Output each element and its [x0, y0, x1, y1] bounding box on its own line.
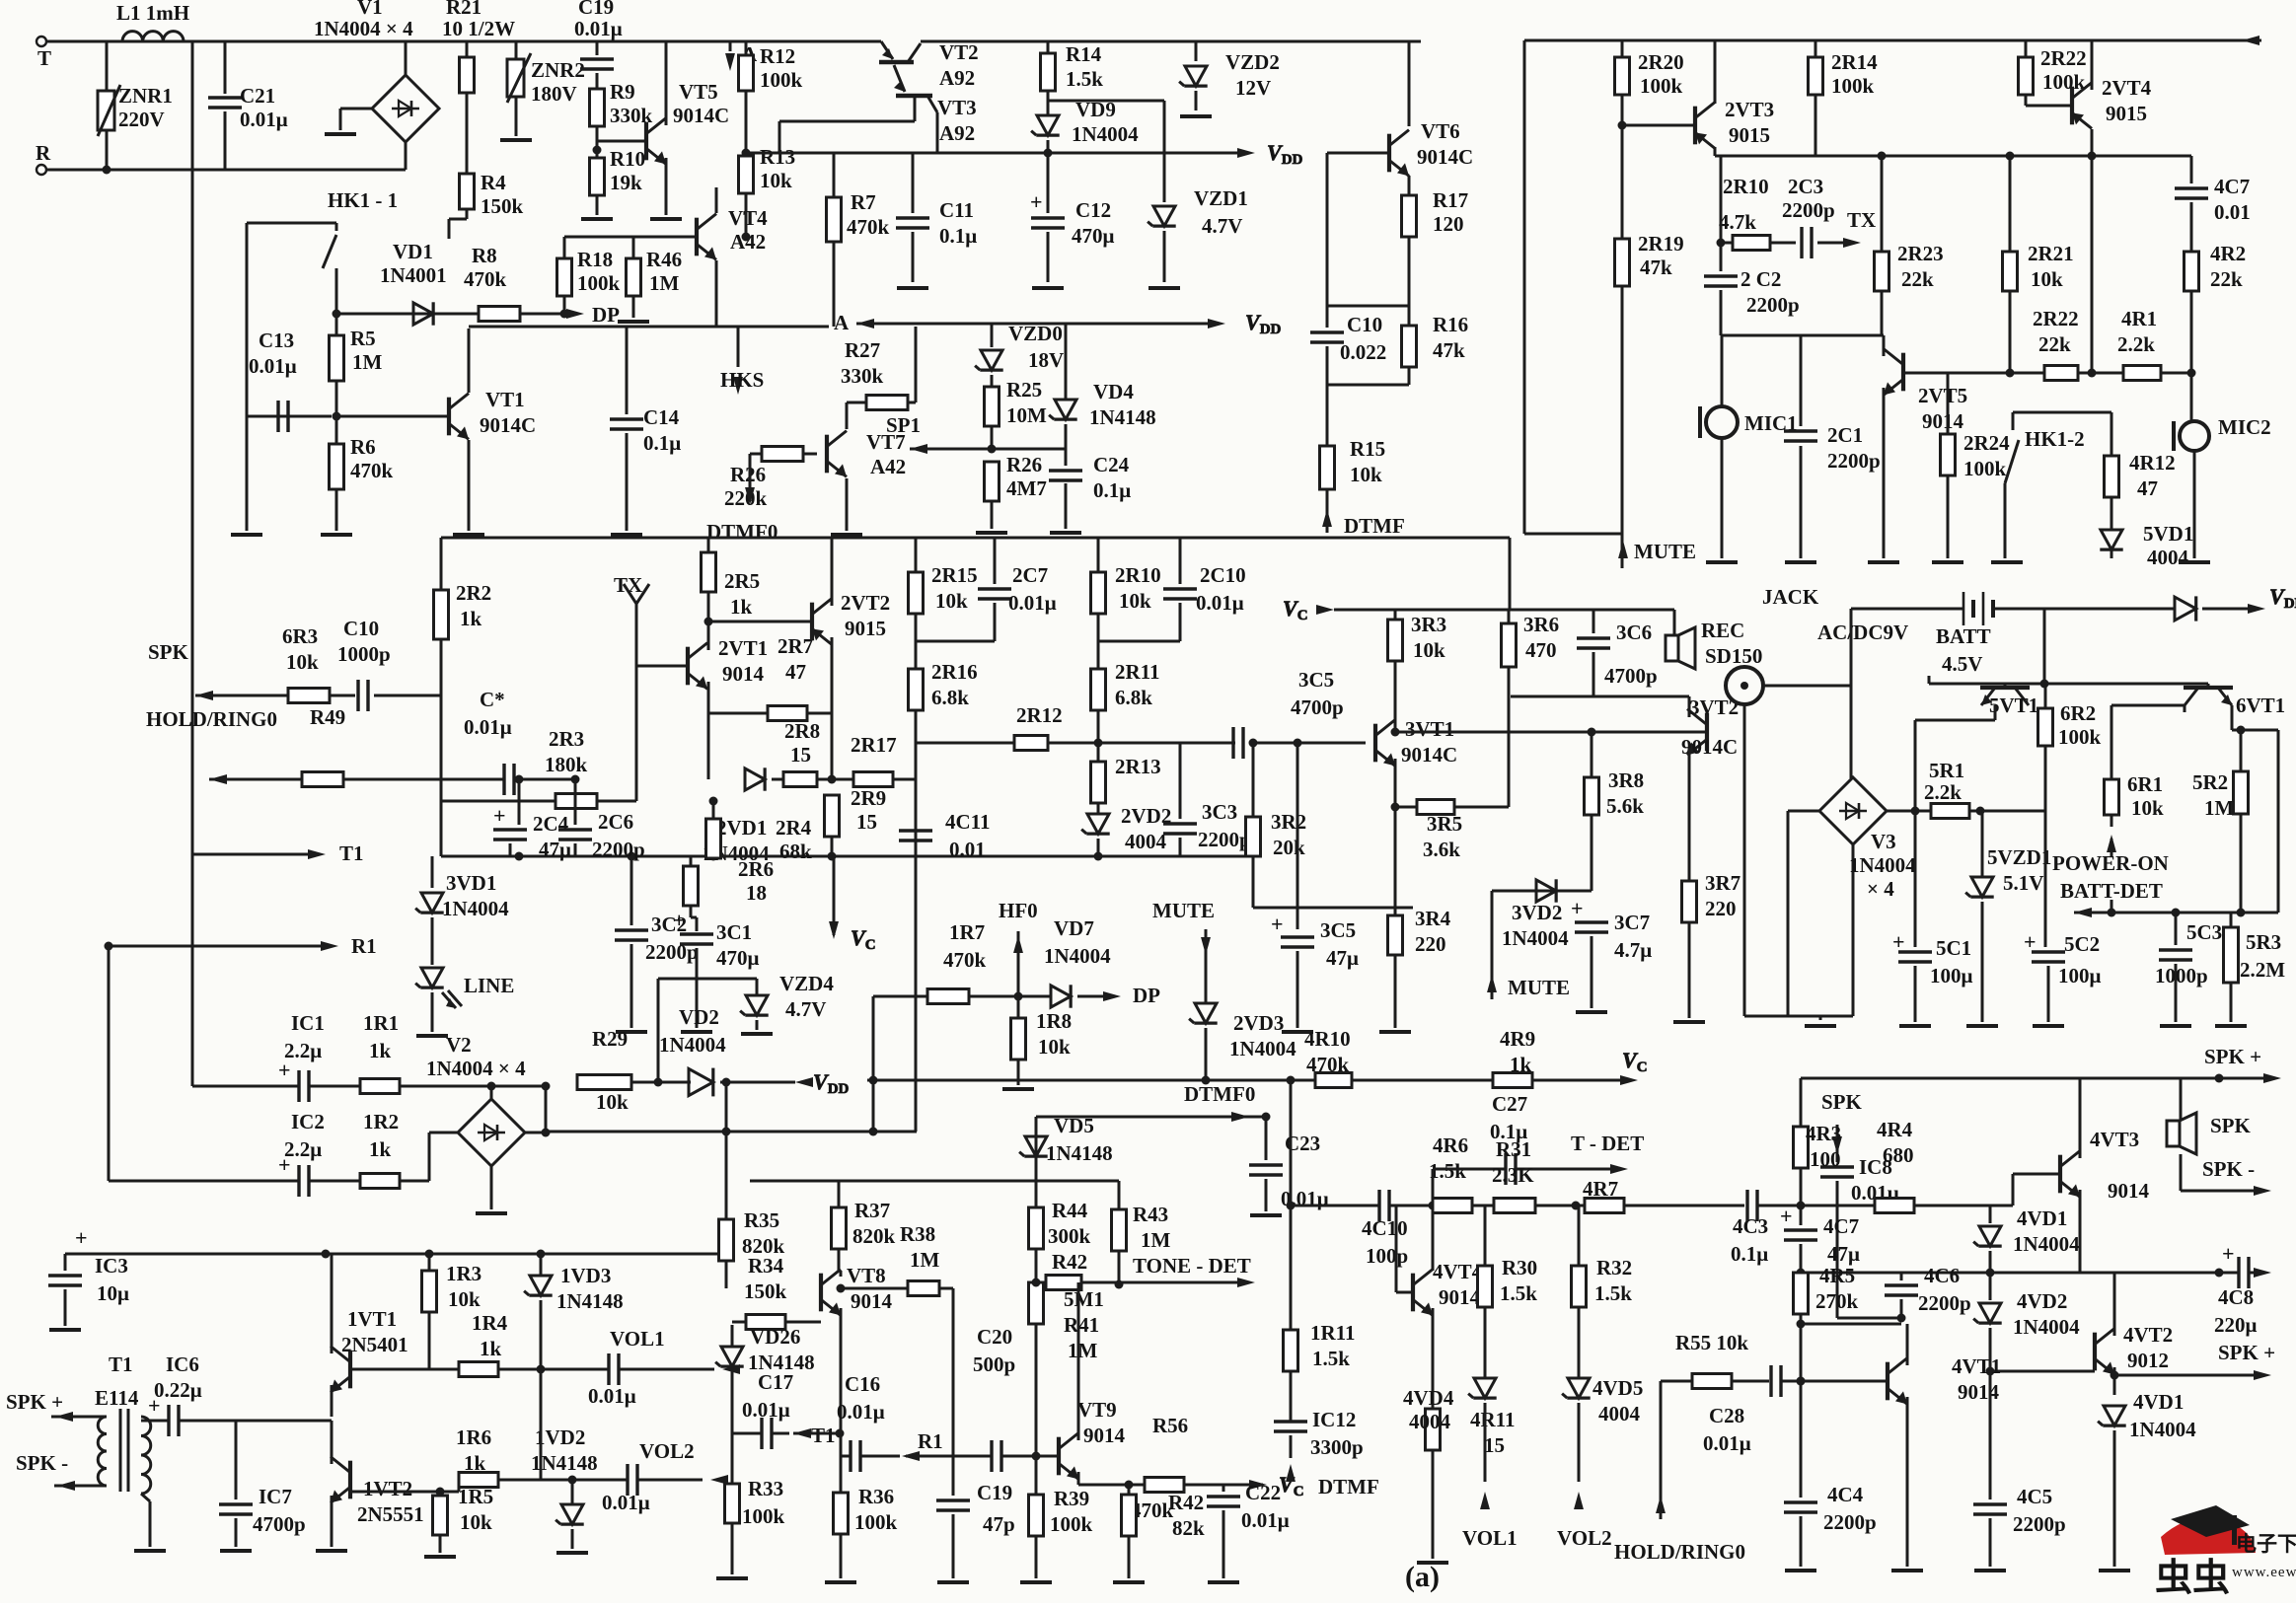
terminal R: [36, 141, 51, 175]
svg-text:R14: R14: [1066, 42, 1102, 66]
svg-text:R12: R12: [760, 44, 795, 68]
svg-text:R35: R35: [744, 1208, 779, 1232]
svg-text:R56: R56: [1152, 1414, 1188, 1437]
net SPK+ right lower: [2114, 1341, 2275, 1380]
net SPK+ label: [6, 1390, 63, 1414]
wire 3VT1 emitter chain: [1394, 759, 1397, 807]
svg-text:HKS: HKS: [720, 368, 764, 392]
net HOLD/RING0 arrow: [146, 707, 302, 784]
svg-text:4M7: 4M7: [1006, 476, 1047, 500]
wire R29 net: [491, 1085, 546, 1088]
svg-text:4004: 4004: [1125, 830, 1167, 853]
transistor 2VT5 9014: [1868, 335, 1967, 562]
svg-text:1M: 1M: [910, 1248, 940, 1272]
diode 2VD3 1N4004: [1189, 1003, 1296, 1080]
svg-text:VOL1: VOL1: [610, 1327, 665, 1351]
svg-text:BATT-DET: BATT-DET: [2060, 879, 2163, 903]
svg-text:MUTE: MUTE: [1508, 976, 1570, 999]
svg-text:100k: 100k: [1963, 457, 2007, 480]
wire IC3 rail: [65, 1250, 732, 1259]
svg-text:SP1: SP1: [886, 413, 921, 437]
wire 6VT1 down: [2185, 705, 2278, 913]
svg-text:1.5k: 1.5k: [1429, 1159, 1466, 1183]
svg-text:10k: 10k: [760, 169, 792, 192]
resistor R42 TONE: [1032, 1250, 1120, 1290]
resistor 2R15 10k: [909, 538, 978, 669]
svg-text:22k: 22k: [2038, 332, 2071, 356]
wire VD2 net: [631, 1078, 691, 1087]
net T1 arrow: [192, 841, 364, 865]
svg-text:2R4: 2R4: [776, 816, 812, 840]
svg-text:9015: 9015: [845, 617, 886, 640]
svg-text:SD150: SD150: [1705, 644, 1762, 668]
svg-text:1N4004: 1N4004: [659, 1033, 726, 1057]
net POWER-ON arrow: [2107, 835, 2116, 917]
svg-text:2200p: 2200p: [1782, 198, 1835, 222]
svg-text:C14: C14: [643, 405, 680, 429]
svg-text:22k: 22k: [2210, 267, 2243, 291]
svg-text:100k: 100k: [2058, 725, 2102, 749]
svg-text:1k: 1k: [480, 1337, 502, 1360]
svg-text:9014C: 9014C: [1417, 145, 1473, 169]
svg-text:3C3: 3C3: [1202, 800, 1237, 824]
svg-text:500p: 500p: [973, 1352, 1015, 1376]
svg-text:0.01μ: 0.01μ: [464, 715, 512, 739]
capacitor C27 0.1u: [1490, 1092, 1618, 1185]
svg-text:6R2: 6R2: [2060, 701, 2096, 725]
svg-text:9014C: 9014C: [480, 413, 536, 437]
svg-text:12V: 12V: [1235, 76, 1271, 100]
svg-text:1M: 1M: [1068, 1339, 1098, 1362]
capacitor C24: [1049, 449, 1131, 533]
capacitor IC6 0.22u: [141, 1352, 332, 1436]
svg-text:0.01μ: 0.01μ: [602, 1491, 650, 1514]
resistor R25 10M: [985, 378, 1048, 454]
resistor 5R1 2.2k: [1886, 759, 2045, 819]
net Vc arrow right mid: [1283, 596, 1674, 623]
capacitor C16 0.01u: [837, 1372, 900, 1472]
svg-text:+: +: [278, 1152, 291, 1177]
svg-text:4R10: 4R10: [1304, 1027, 1351, 1051]
resistor R46 1M: [618, 237, 682, 322]
svg-text:9014C: 9014C: [673, 104, 729, 127]
svg-text:C19: C19: [977, 1481, 1012, 1504]
capacitor 2C4 47u: [493, 779, 571, 861]
svg-text:+: +: [148, 1393, 161, 1418]
svg-text:A92: A92: [939, 121, 975, 145]
svg-text:2200p: 2200p: [1198, 828, 1251, 851]
svg-text:22k: 22k: [1901, 267, 1934, 291]
capacitor 3C5 4700p: [1233, 668, 1366, 759]
svg-text:4VT4: 4VT4: [1433, 1260, 1483, 1283]
capacitor 5C1 100u: [1892, 811, 1973, 1026]
svg-text:1.5k: 1.5k: [1500, 1281, 1537, 1305]
svg-text:C21: C21: [240, 84, 275, 108]
wire jack to bridge: [1744, 686, 1853, 1026]
svg-text:10k: 10k: [596, 1090, 629, 1114]
svg-text:T1: T1: [109, 1352, 133, 1376]
svg-text:1VD3: 1VD3: [560, 1264, 611, 1287]
svg-text:2.3K: 2.3K: [1492, 1163, 1534, 1187]
resistor R9 330k: [590, 80, 653, 150]
varistor ZNR2: [500, 41, 585, 140]
svg-text:(a): (a): [1405, 1561, 1440, 1593]
ground C13 wire: [231, 416, 262, 535]
svg-text:R8: R8: [472, 244, 497, 267]
wire 3R2 bottom rail: [1253, 907, 1413, 910]
svg-text:180k: 180k: [545, 753, 588, 776]
resistor R56 470k: [1131, 1414, 1304, 1522]
svg-text:DTMF: DTMF: [1318, 1475, 1379, 1498]
svg-text:R6: R6: [350, 435, 376, 459]
svg-text:3C5: 3C5: [1320, 918, 1356, 942]
svg-text:4R12: 4R12: [2129, 451, 2176, 475]
svg-text:15: 15: [1484, 1433, 1505, 1457]
svg-text:R16: R16: [1433, 313, 1468, 336]
capacitor 2C2 2200p: [1704, 156, 1800, 335]
svg-text:5.6k: 5.6k: [1606, 794, 1644, 818]
svg-text:4.7V: 4.7V: [1202, 214, 1242, 238]
capacitor 4C8 220u: [2214, 1241, 2271, 1337]
svg-text:2C3: 2C3: [1788, 175, 1823, 198]
svg-text:3.6k: 3.6k: [1423, 838, 1460, 861]
net HKS arrow: [720, 327, 764, 395]
resistor 2R24 100k: [1932, 373, 2010, 562]
diode 4VD5 4004: [1562, 1376, 1643, 1482]
svg-text:R49: R49: [310, 705, 345, 729]
svg-text:2R16: 2R16: [931, 660, 978, 684]
svg-text:9014: 9014: [1958, 1380, 2000, 1404]
svg-text:470k: 470k: [847, 215, 890, 239]
svg-text:VT1: VT1: [485, 388, 525, 411]
svg-text:2R17: 2R17: [851, 733, 897, 757]
svg-text:4R11: 4R11: [1470, 1408, 1516, 1431]
svg-text:0.01μ: 0.01μ: [249, 354, 297, 378]
svg-text:47μ: 47μ: [1326, 946, 1359, 970]
svg-text:220: 220: [1705, 897, 1737, 920]
svg-text:C24: C24: [1093, 453, 1130, 476]
net SPK down arrow: [1821, 1090, 1863, 1162]
resistor R29 10k: [577, 1027, 631, 1114]
battery BATT 4.5V: [1851, 592, 2044, 686]
svg-text:100k: 100k: [1050, 1512, 1093, 1536]
svg-text:R46: R46: [646, 248, 682, 271]
resistor 4R12 47: [2105, 451, 2176, 531]
svg-text:VZD1: VZD1: [1194, 186, 1248, 210]
wire R49 to 2C6: [557, 778, 575, 781]
resistor 4R5 270k: [1794, 1264, 1859, 1386]
svg-text:R26: R26: [730, 463, 766, 486]
svg-text:R43: R43: [1133, 1203, 1168, 1226]
svg-text:10k: 10k: [286, 650, 319, 674]
svg-text:2VT5: 2VT5: [1918, 384, 1967, 407]
net T-DET arrow: [1571, 1132, 1644, 1174]
svg-text:C27: C27: [1492, 1092, 1527, 1116]
diode VD7 1N4004: [1028, 916, 1160, 1008]
svg-text:820k: 820k: [852, 1224, 896, 1248]
svg-text:9014: 9014: [1083, 1424, 1126, 1447]
resistor 2R22b 22k: [2033, 307, 2079, 381]
net MUTE down arrow mid: [1152, 899, 1215, 1004]
resistor R8 470k: [464, 244, 553, 322]
bridge rectifier V2: [426, 1033, 526, 1166]
wire T top rail: [46, 40, 467, 43]
resistor R10 19k: [581, 146, 645, 220]
resistor R7 470k: [827, 153, 890, 327]
svg-text:JACK: JACK: [1762, 585, 1819, 609]
svg-text:5VD1: 5VD1: [2143, 522, 2193, 546]
svg-text:R26: R26: [1006, 453, 1042, 476]
wire 5VT1 emitter: [1915, 676, 1995, 811]
diode 3VD2 1N4004: [1502, 879, 1569, 950]
svg-text:1N4004: 1N4004: [1072, 122, 1139, 146]
resistor R36 100k: [825, 1485, 898, 1582]
svg-text:2.2k: 2.2k: [2117, 332, 2155, 356]
svg-text:3R3: 3R3: [1411, 613, 1446, 636]
svg-text:IC7: IC7: [259, 1485, 292, 1508]
svg-text:4VT1: 4VT1: [1952, 1354, 2001, 1378]
resistor 3R7 220: [1673, 748, 1741, 1022]
diode 4VD1 1N4004: [1973, 1206, 2080, 1273]
wire top rail right: [1524, 36, 2261, 45]
svg-text:18V: 18V: [1028, 348, 1064, 372]
capacitor 2C1 2200p: [1784, 335, 1881, 562]
net T1 arrow mid: [793, 1424, 840, 1447]
svg-text:R32: R32: [1596, 1256, 1632, 1279]
resistor 2R22 100k: [2019, 40, 2087, 106]
resistor R55 10k: [1661, 1331, 1769, 1389]
svg-text:C22: C22: [1245, 1481, 1281, 1504]
svg-text:VT4: VT4: [728, 206, 768, 230]
net VDD arrow right: [1237, 140, 1303, 168]
svg-text:2R13: 2R13: [1115, 755, 1161, 778]
svg-text:4R6: 4R6: [1433, 1133, 1468, 1157]
net MUTE up arrow right: [1487, 891, 1570, 999]
svg-text:R17: R17: [1433, 188, 1468, 212]
svg-text:C20: C20: [977, 1325, 1012, 1349]
net DTMF0 arrow mid: [1036, 1082, 1255, 1181]
svg-text:R27: R27: [845, 338, 880, 362]
resistor 4R10 470k: [1304, 1027, 1352, 1088]
svg-text:2VT1: 2VT1: [718, 636, 768, 660]
svg-text:6R3: 6R3: [282, 624, 318, 648]
transistor VT9 9014: [1059, 1392, 1126, 1479]
svg-text:SPK -: SPK -: [2202, 1157, 2255, 1181]
svg-text:5C1: 5C1: [1936, 936, 1971, 960]
diode VD26 1N4148: [715, 1325, 815, 1433]
svg-text:19k: 19k: [610, 171, 642, 194]
svg-text:R10: R10: [610, 147, 645, 171]
svg-text:C12: C12: [1075, 198, 1111, 222]
svg-text:C*: C*: [480, 688, 505, 711]
svg-text:VOL1: VOL1: [1462, 1526, 1518, 1550]
resistor R5 1M: [330, 314, 383, 421]
transistor 4VT2 9012: [2095, 1273, 2173, 1380]
svg-text:10k: 10k: [2131, 796, 2164, 820]
svg-text:4C5: 4C5: [2017, 1485, 2052, 1508]
wire left boundary right-section: [1524, 40, 1622, 534]
resistor 2R12: [916, 703, 1235, 751]
svg-text:5.1V: 5.1V: [2003, 871, 2043, 895]
capacitor 4C11 0.01: [899, 810, 991, 861]
svg-text:IC2: IC2: [291, 1110, 325, 1133]
transistor VT7 A42: [827, 430, 906, 535]
svg-text:ZNR1: ZNR1: [118, 84, 173, 108]
svg-text:5VT1: 5VT1: [1989, 694, 2038, 717]
svg-text:2VD1: 2VD1: [716, 816, 767, 840]
varistor ZNR1: [98, 41, 173, 170]
svg-text:2C4: 2C4: [533, 812, 569, 836]
svg-text:R55 10k: R55 10k: [1675, 1331, 1748, 1354]
svg-text:4700p: 4700p: [1604, 664, 1658, 688]
svg-text:0.01: 0.01: [2214, 200, 2251, 224]
net Vc arrow down: [829, 856, 875, 953]
svg-text:TX: TX: [1847, 208, 1876, 232]
svg-text:VD5: VD5: [1054, 1114, 1094, 1137]
svg-text:T - DET: T - DET: [1571, 1132, 1644, 1155]
svg-text:REC: REC: [1701, 619, 1744, 642]
resistor 1R6 1k: [352, 1425, 541, 1492]
svg-text:4C8: 4C8: [2218, 1285, 2254, 1309]
capacitor C21: [208, 41, 288, 170]
resistor 1R5 10k: [424, 1485, 493, 1557]
svg-text:2C6: 2C6: [598, 810, 633, 834]
resistor R32 1.5k: [1572, 1206, 1633, 1377]
resistor 2R3 180k: [441, 666, 636, 809]
svg-text:4004: 4004: [2147, 546, 2189, 569]
svg-text:1R3: 1R3: [446, 1262, 481, 1285]
capacitor IC2 2.2u: [109, 946, 360, 1197]
wire 4VT2 base: [1990, 1370, 2095, 1373]
capacitor C* 0.01u: [464, 688, 557, 795]
svg-text:4C4: 4C4: [1827, 1483, 1864, 1506]
svg-text:9015: 9015: [2106, 102, 2147, 125]
varistor loop VZD4: [658, 972, 834, 1082]
svg-text:4004: 4004: [1598, 1402, 1641, 1425]
svg-text:18: 18: [746, 881, 767, 905]
svg-text:1M: 1M: [352, 350, 383, 374]
capacitor C13: [247, 329, 332, 432]
resistor 4R6 1.5k: [1429, 1133, 1490, 1213]
svg-text:100μ: 100μ: [1930, 964, 1973, 987]
svg-text:2R10: 2R10: [1723, 175, 1769, 198]
svg-text:3R6: 3R6: [1523, 613, 1559, 636]
wire 2VT1 collector to 2VT2 base: [704, 618, 813, 651]
svg-text:2200p: 2200p: [1823, 1510, 1877, 1534]
wire 2VT4 collector down: [2088, 156, 2097, 378]
resistor 1R3 10k: [422, 1254, 482, 1369]
wire 3VD2 rail: [1492, 890, 1592, 893]
resistor R42b 82k: [1113, 1485, 1205, 1582]
svg-text:1R11: 1R11: [1310, 1321, 1356, 1345]
capacitor 5C3 1000p: [2155, 913, 2222, 1026]
svg-text:2200p: 2200p: [1746, 293, 1800, 317]
svg-text:1N4004: 1N4004: [442, 897, 509, 920]
svg-text:IC12: IC12: [1312, 1408, 1356, 1431]
svg-text:4VD2: 4VD2: [2017, 1289, 2067, 1313]
svg-text:4VD5: 4VD5: [1592, 1376, 1643, 1400]
svg-text:1.5k: 1.5k: [1312, 1347, 1350, 1370]
svg-text:2R9: 2R9: [851, 786, 886, 810]
wire C27 T-DET: [1433, 1169, 1506, 1206]
svg-text:R38: R38: [900, 1222, 935, 1246]
svg-text:220V: 220V: [118, 108, 165, 131]
svg-text:1N4001: 1N4001: [380, 263, 447, 287]
svg-text:330k: 330k: [841, 364, 884, 388]
resistor 6R2 100k: [2038, 684, 2102, 811]
net SP1 arrow: [886, 413, 1066, 454]
svg-text:MUTE: MUTE: [1634, 540, 1696, 563]
svg-text:100: 100: [1810, 1147, 1841, 1171]
resistor R37 820k: [832, 1181, 896, 1271]
svg-text:2.2k: 2.2k: [1924, 780, 1962, 804]
capacitor 2C6 2200p: [558, 775, 645, 862]
svg-text:0.01μ: 0.01μ: [1703, 1431, 1751, 1455]
diode VD9 1N4004: [1031, 98, 1164, 158]
svg-text:R5: R5: [350, 327, 376, 350]
svg-text:R7: R7: [851, 190, 876, 214]
svg-text:6.8k: 6.8k: [931, 686, 969, 709]
resistor R4 150k: [460, 171, 524, 218]
capacitor 3C1 470u: [673, 908, 760, 1032]
svg-text:1VT1: 1VT1: [347, 1307, 397, 1331]
resistor 2R4 68k: [706, 797, 813, 864]
svg-text:0.01μ: 0.01μ: [742, 1398, 790, 1422]
transistor 5VT1: [1929, 684, 2208, 717]
svg-text:1R6: 1R6: [456, 1425, 491, 1449]
net DTMF up arrow mid: [1286, 1464, 1379, 1498]
resistor R35 820k: [719, 1208, 785, 1288]
resistor R44 300k: [1029, 1181, 1091, 1280]
resistor 4R3 100: [1794, 1078, 1842, 1206]
svg-text:1M: 1M: [1141, 1228, 1171, 1252]
svg-text:10k: 10k: [935, 589, 968, 613]
capacitor C10 1000p: [337, 617, 441, 711]
jack JACK AC/DC9V: [1726, 585, 1908, 704]
svg-text:1.5k: 1.5k: [1594, 1281, 1632, 1305]
svg-text:82k: 82k: [1172, 1516, 1205, 1540]
capacitor C28 0.01u: [1703, 1365, 1888, 1455]
svg-text:1k: 1k: [369, 1137, 392, 1161]
resistor 2R21 10k: [2003, 152, 2074, 378]
svg-text:470μ: 470μ: [1072, 224, 1115, 248]
svg-text:SPK: SPK: [2210, 1114, 2252, 1137]
capacitor 3C6 4700p: [1577, 610, 1658, 696]
svg-text:+: +: [2024, 929, 2037, 954]
wire mid rail y1197: [750, 1181, 1119, 1209]
svg-text:T: T: [37, 46, 51, 70]
svg-text:V3: V3: [1871, 830, 1896, 853]
svg-text:4VT2: 4VT2: [2123, 1323, 2173, 1347]
resistor 2R17: [851, 733, 916, 787]
resistor 2R19 47k: [1615, 121, 1684, 514]
svg-text:3C5: 3C5: [1298, 668, 1334, 692]
svg-text:C11: C11: [939, 198, 974, 222]
resistor 4R7: [1572, 1177, 1745, 1213]
resistor 3R3 10k: [1388, 610, 1447, 735]
svg-text:2C7: 2C7: [1012, 563, 1048, 587]
svg-text:2200p: 2200p: [1827, 449, 1881, 473]
wire mid section top rail: [441, 537, 1510, 540]
resistor R38 1M: [837, 1222, 954, 1456]
svg-text:4.5V: 4.5V: [1942, 652, 1982, 676]
svg-text:1N4004: 1N4004: [2129, 1418, 2196, 1441]
net HOLD/RING0 arrow up: [1614, 1381, 1745, 1564]
svg-text:100μ: 100μ: [2058, 964, 2102, 987]
svg-text:0.01μ: 0.01μ: [837, 1400, 885, 1424]
svg-text:6VT1: 6VT1: [2236, 694, 2285, 717]
resistor 2R23 22k: [1875, 152, 1944, 336]
